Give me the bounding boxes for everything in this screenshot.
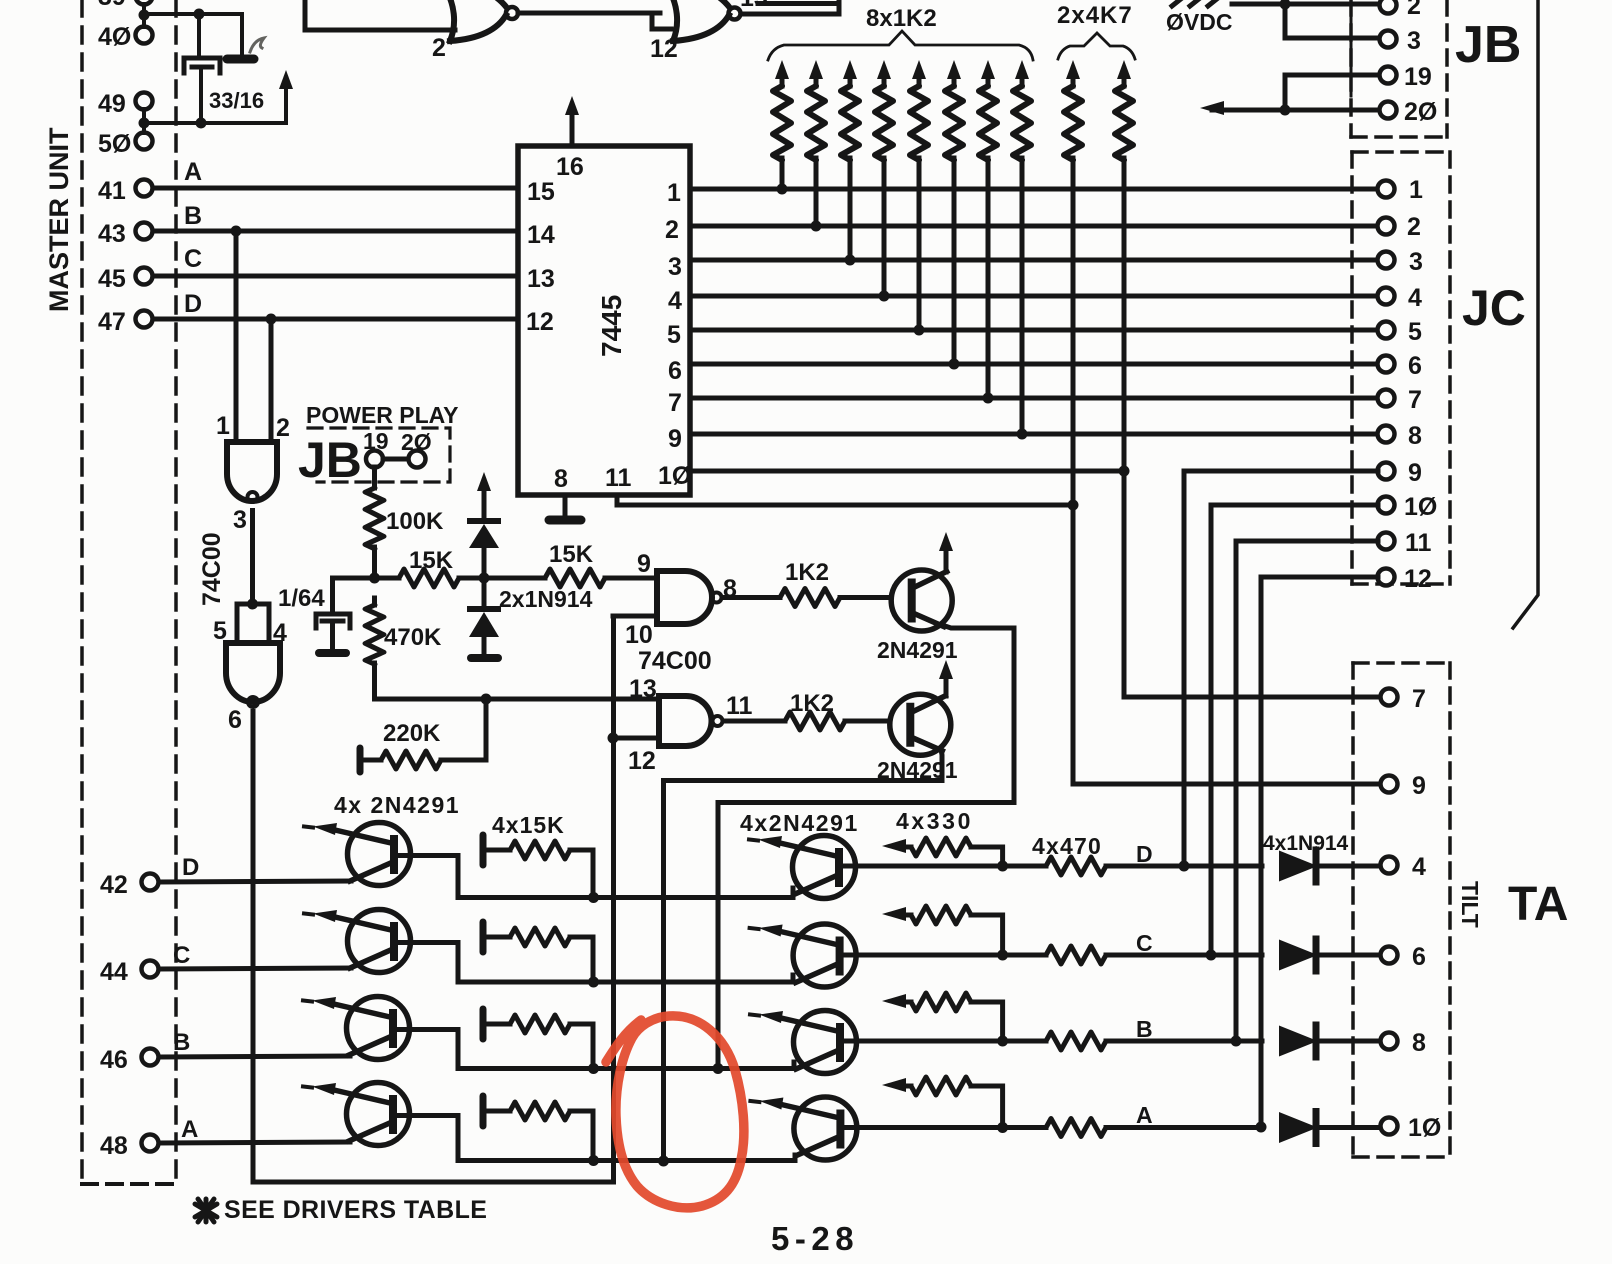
label 4x2N4291 right set — [740, 810, 859, 836]
pin JB2 — [1380, 0, 1421, 20]
resistor R2 1K2 — [807, 60, 825, 226]
wire pin12 from inverter line — [608, 733, 660, 744]
pin 41 — [98, 177, 153, 205]
pin 11 label — [605, 464, 632, 492]
wire JC12 to A row — [1256, 577, 1379, 1133]
svg-text:100K: 100K — [386, 508, 444, 535]
svg-text:4: 4 — [668, 287, 682, 315]
svg-text:2x1N914: 2x1N914 — [499, 586, 593, 612]
svg-text:2: 2 — [1407, 0, 1421, 20]
diode D5 1N914 row B — [1280, 1025, 1380, 1057]
wire JC10 to C row — [1206, 505, 1379, 961]
svg-text:9: 9 — [1408, 459, 1422, 487]
resistor R8 1K2 — [1013, 60, 1031, 434]
svg-text:19: 19 — [1404, 63, 1432, 91]
wire base 48 to Q6 — [159, 1142, 350, 1143]
svg-text:4x1N914: 4x1N914 — [1263, 832, 1349, 855]
svg-text:1: 1 — [216, 412, 230, 440]
pin 5 label — [667, 321, 681, 349]
svg-text:D: D — [184, 290, 202, 318]
svg-text:C: C — [1136, 930, 1153, 956]
svg-text:4x2N4291: 4x2N4291 — [740, 810, 859, 836]
wire row A to Q10 base — [594, 1155, 796, 1161]
resistor R9 4K7 — [1064, 60, 1082, 505]
pin 47 — [98, 308, 153, 336]
svg-text:C: C — [184, 245, 202, 273]
resistor 470 row D — [1046, 857, 1262, 875]
wire pin 1 to JC1 — [690, 184, 1378, 195]
label 2N4291 lower — [877, 757, 958, 783]
wire Q10 collector row A — [840, 1122, 1046, 1133]
pin JC7 — [1378, 386, 1422, 414]
svg-text:11: 11 — [1405, 529, 1432, 557]
svg-text:1: 1 — [667, 179, 681, 207]
wire Q3 collector to row D — [395, 856, 594, 898]
label 5-28 — [771, 1220, 859, 1257]
pin JC8 — [1378, 422, 1423, 450]
wire Q6 collector to row A — [394, 1116, 594, 1161]
svg-text:16: 16 — [556, 153, 584, 181]
label 0VDC — [1166, 9, 1232, 35]
pin JC5 — [1378, 318, 1423, 346]
svg-text:D: D — [1136, 841, 1153, 867]
svg-text:C: C — [173, 942, 190, 969]
supply arrow Q1 emitter — [939, 532, 953, 572]
svg-text:42: 42 — [100, 871, 128, 899]
wire G2 out up — [741, 0, 839, 14]
pin 43 — [98, 220, 153, 248]
svg-text:9: 9 — [668, 425, 682, 453]
svg-text:ØVDC: ØVDC — [1166, 9, 1232, 35]
svg-text:15: 15 — [527, 178, 555, 206]
wire pin 5 to JC5 — [690, 325, 1378, 336]
wire 220K up to node — [484, 699, 489, 760]
svg-text:11: 11 — [726, 692, 753, 720]
svg-text:POWER PLAY: POWER PLAY — [306, 402, 459, 428]
svg-text:19: 19 — [363, 428, 389, 454]
wire pin10 from inverter line — [613, 614, 657, 619]
wire 47 down to gate U1A input2 — [269, 319, 274, 442]
svg-text:7: 7 — [1412, 685, 1426, 713]
wire Q4 collector to row C — [395, 943, 594, 983]
transistor Q3 row D — [304, 823, 411, 886]
svg-text:B: B — [1136, 1016, 1153, 1042]
label SEE DRIVERS TABLE — [224, 1196, 487, 1224]
wire gate3 out to gate inputs 5,4 — [237, 511, 269, 644]
svg-text:A: A — [181, 1116, 198, 1143]
svg-text:3: 3 — [233, 506, 247, 534]
row letter D — [182, 854, 199, 881]
resistor 330 row A with arrow — [882, 1077, 1003, 1128]
svg-text:B: B — [173, 1029, 190, 1056]
svg-text:12: 12 — [1404, 565, 1432, 593]
label JB — [1455, 16, 1521, 74]
wire Q8 collector row C — [839, 950, 1046, 961]
svg-text:9: 9 — [1412, 772, 1426, 800]
svg-text:5: 5 — [667, 321, 681, 349]
resistor 470 row B — [1046, 1032, 1262, 1050]
pin JC12 — [1378, 565, 1432, 593]
wire Q5 collector to row B — [394, 1030, 594, 1069]
wire input box to nor gate G1 — [305, 0, 455, 30]
cable bundle line — [1513, 0, 1538, 628]
svg-text:5Ø: 5Ø — [98, 130, 131, 158]
nand gate U1A 74C00 pins 1,2 out 3 — [216, 412, 290, 534]
wire node to 1/64 branch — [333, 578, 375, 614]
wire pins 39-40 tie — [139, 4, 150, 27]
resistor 330 row C with arrow — [882, 906, 1003, 955]
resistor R5 1K2 — [910, 60, 928, 330]
diode D3 1N914 row D — [1280, 850, 1380, 882]
svg-text:14: 14 — [527, 221, 555, 249]
svg-text:33/16: 33/16 — [209, 88, 264, 113]
nor gate G1 (top, partial) — [432, 0, 518, 62]
ground pin 8 — [549, 495, 581, 520]
junction row B — [588, 1063, 599, 1074]
capacitor 33/16 — [184, 14, 264, 124]
svg-text:1K2: 1K2 — [790, 690, 834, 717]
diode D6 1N914 row A — [1280, 1112, 1380, 1144]
wire 4K7 left down to TA9 — [1073, 505, 1380, 784]
svg-text:A: A — [1136, 1102, 1153, 1128]
resistor R4 1K2 — [875, 60, 893, 296]
resistor 1K2 lower — [723, 690, 890, 730]
master unit dashed border bottom — [82, 1182, 176, 1186]
svg-text:47: 47 — [98, 308, 126, 336]
svg-text:4x 2N4291: 4x 2N4291 — [334, 792, 460, 818]
svg-text:4: 4 — [1408, 284, 1422, 312]
svg-text:45: 45 — [98, 265, 126, 293]
transistor Q2 2N4291 — [890, 694, 951, 755]
capacitor 1/64 — [278, 585, 350, 650]
pin JB20 — [1380, 98, 1438, 126]
terminator diode bottom — [471, 654, 498, 662]
connector JC dashed box — [1352, 152, 1450, 584]
row D letter — [1136, 841, 1153, 867]
label POWER PLAY — [306, 402, 459, 428]
label JC — [1462, 280, 1526, 336]
op IC U2 7445 body — [518, 146, 690, 495]
label MASTER UNIT — [44, 127, 74, 312]
row A letter — [1136, 1102, 1153, 1128]
nor gate G2 (top, partial) with bubble — [650, 0, 768, 63]
wire 470K to gate pin13 — [375, 694, 660, 705]
wire pin 9 to JC8 — [690, 429, 1378, 440]
label 2x4K7 — [1057, 2, 1133, 29]
master unit dashed border left — [80, 0, 84, 1184]
pin JB3 — [1380, 27, 1421, 55]
pin 39 — [98, 0, 153, 11]
nand gate U1D pins 13,12 out 11 — [628, 675, 753, 775]
pin 45 — [98, 265, 153, 293]
nand gate U1B 74C00 pins 5,4 out 6 — [213, 617, 287, 734]
svg-text:1/64: 1/64 — [278, 585, 325, 612]
wire pins 49-50 tie — [139, 109, 150, 133]
svg-text:43: 43 — [98, 220, 126, 248]
wire Q7 collector row D — [839, 861, 1046, 872]
pin TA4 — [1381, 853, 1427, 881]
transistor Q5 row B — [303, 997, 410, 1060]
pin 49 — [98, 90, 153, 118]
wire Q9 collector row B — [840, 1036, 1046, 1047]
pin 7 label — [668, 389, 682, 417]
pin TA7 — [1381, 685, 1426, 713]
svg-text:2Ø: 2Ø — [1404, 98, 1437, 126]
hatch marks above 0VDC — [1172, 0, 1218, 6]
wire Q1 collector to B row — [713, 625, 1015, 1074]
pin 2 label — [665, 216, 679, 244]
svg-text:12: 12 — [526, 308, 554, 336]
ground 1/64 — [319, 649, 346, 657]
svg-text:15K: 15K — [409, 547, 454, 574]
transistor Q9 row B — [750, 1011, 857, 1074]
wire 41 to 7445 pin15 — [153, 186, 518, 191]
svg-text:2: 2 — [432, 34, 446, 62]
label 4x330 — [896, 808, 973, 834]
svg-text:1Ø: 1Ø — [1408, 1114, 1441, 1142]
resistor 15K second — [484, 541, 657, 587]
connector TA dashed box — [1353, 663, 1450, 1157]
transistor Q8 row C — [750, 924, 857, 987]
ground pad top — [227, 55, 254, 64]
label 4x470 — [1032, 833, 1102, 859]
resistor 15K first — [375, 547, 485, 587]
label JB small — [298, 432, 362, 488]
svg-text:5: 5 — [1408, 318, 1422, 346]
svg-text:2: 2 — [276, 414, 290, 442]
label 2N4291 upper — [877, 637, 958, 663]
wire inverter output to pins 10,12 — [253, 616, 614, 1182]
pin 4 label — [668, 287, 682, 315]
wire G1 out to G2 — [518, 13, 671, 29]
svg-text:15K: 15K — [549, 541, 594, 568]
crease line JB — [1350, 0, 1353, 96]
svg-text:4x15K: 4x15K — [492, 812, 565, 838]
svg-text:2N4291: 2N4291 — [877, 637, 958, 663]
svg-text:6: 6 — [228, 706, 242, 734]
wire Q2 collector to A row — [658, 749, 942, 1167]
red annotation circle — [606, 1016, 744, 1208]
node dot 100K bottom — [369, 573, 380, 584]
label TA — [1508, 878, 1568, 931]
label 2x1N914 — [499, 586, 593, 612]
svg-text:6: 6 — [668, 357, 682, 385]
pin JC2 — [1378, 213, 1421, 241]
pin 46 — [100, 1046, 159, 1074]
svg-text:JC: JC — [1462, 280, 1526, 336]
pin 16 supply arrow — [556, 96, 584, 181]
brace 8x1K2 — [768, 31, 1033, 60]
pencil curl mark — [250, 38, 264, 52]
wire row C to Q8 base — [594, 975, 794, 982]
resistor R7 1K2 — [979, 60, 997, 398]
resistor 15K row C — [483, 922, 593, 982]
svg-text:D: D — [182, 854, 199, 881]
svg-text:7: 7 — [1408, 386, 1422, 414]
svg-text:1K2: 1K2 — [785, 559, 829, 586]
svg-text:6: 6 — [1412, 943, 1426, 971]
label 74C00 vertical — [198, 532, 226, 606]
resistor 470 row A — [1046, 1119, 1262, 1137]
svg-text:48: 48 — [100, 1132, 128, 1160]
svg-text:B: B — [184, 202, 202, 230]
svg-text:8x1K2: 8x1K2 — [866, 5, 937, 32]
resistor 15K row D — [483, 835, 593, 898]
diode D2 1N914 — [469, 578, 499, 653]
wire row B to Q9 base — [594, 1062, 795, 1069]
svg-text:2x4K7: 2x4K7 — [1057, 2, 1133, 29]
wire JB19-JB20 tie with arrow — [1200, 75, 1379, 116]
wire JC11 to B row — [1231, 541, 1379, 1047]
connector JB dashed box — [1351, 0, 1447, 137]
svg-text:A: A — [184, 158, 202, 186]
wire JC9 to D row — [1179, 471, 1379, 872]
wire pin 10 to 4K7 right — [690, 466, 1130, 477]
resistor 100K — [366, 467, 445, 578]
label 74C00 center — [638, 647, 712, 675]
svg-text:7: 7 — [668, 389, 682, 417]
wire pin 4 to JC4 — [690, 291, 1378, 302]
supply arrow 33/16 — [279, 70, 293, 90]
wire JB19-JB20 — [383, 457, 408, 462]
resistor 470 row C — [1046, 946, 1262, 964]
pin 50 — [98, 130, 153, 158]
pin JB20 powerplay — [401, 429, 432, 468]
pin 3 label — [668, 253, 682, 281]
resistor 1K2 upper — [722, 559, 891, 607]
row B letter — [1136, 1016, 1153, 1042]
pin TA6 — [1381, 943, 1426, 971]
svg-text:10: 10 — [625, 621, 653, 649]
svg-text:4Ø: 4Ø — [98, 23, 131, 51]
transistor Q6 row A — [303, 1083, 410, 1146]
svg-text:TA: TA — [1508, 878, 1568, 931]
wire 43 to 7445 pin14 — [153, 226, 518, 237]
svg-text:2Ø: 2Ø — [401, 429, 432, 455]
resistor 220K — [360, 720, 486, 772]
svg-text:5-28: 5-28 — [771, 1220, 859, 1257]
svg-text:74C00: 74C00 — [638, 647, 712, 675]
wire node 49 to supply arrow — [144, 88, 286, 129]
svg-text:470K: 470K — [384, 624, 442, 651]
pin 8 label — [554, 465, 568, 493]
svg-text:1: 1 — [1409, 176, 1423, 204]
label 4x1N914 — [1263, 832, 1349, 855]
svg-text:12: 12 — [628, 747, 656, 775]
diode D4 1N914 row C — [1280, 939, 1380, 971]
svg-text:3: 3 — [1409, 248, 1423, 276]
resistor 330 row D with arrow — [882, 838, 1003, 866]
node D label — [184, 290, 202, 318]
svg-text:6: 6 — [1408, 352, 1422, 380]
resistor R6 1K2 — [945, 60, 963, 364]
pin 14 label — [527, 221, 555, 249]
resistor R3 1K2 — [841, 60, 859, 260]
pin 13 label — [527, 265, 555, 293]
wire pin 7 to JC7 — [690, 393, 1378, 404]
wire pin 11 to 4K7 left — [617, 495, 1079, 511]
pin 15 label — [527, 178, 555, 206]
wire 47 to 7445 pin12 — [153, 314, 518, 325]
node C label — [184, 245, 202, 273]
wire base 44 to Q4 — [159, 968, 351, 969]
wire node 40 to cap top — [144, 9, 242, 54]
pin 9 label — [668, 425, 682, 453]
supply arrow Q2 emitter — [939, 660, 953, 696]
pin 6 label — [668, 357, 682, 385]
svg-text:39: 39 — [98, 0, 126, 11]
junction row C — [588, 977, 599, 988]
pin JB19 powerplay — [363, 428, 389, 468]
resistor 15K row B — [483, 1009, 593, 1069]
power play JB dashed box — [308, 428, 450, 482]
pin 10 label — [658, 462, 691, 490]
resistor 470K — [366, 598, 443, 699]
wire 4K7 right down to TA7 — [1124, 471, 1380, 697]
row letter A — [181, 1116, 198, 1143]
svg-text:4x330: 4x330 — [896, 808, 973, 834]
svg-text:220K: 220K — [383, 720, 441, 747]
svg-text:4: 4 — [1412, 853, 1426, 881]
nand gate U1C pins 9,10 out 8 — [625, 550, 737, 649]
pin TA9 — [1381, 772, 1426, 800]
svg-text:8: 8 — [1412, 1029, 1426, 1057]
svg-text:JB: JB — [1455, 16, 1521, 74]
junction row A — [588, 1155, 599, 1166]
svg-text:12: 12 — [650, 35, 678, 63]
transistor Q4 row C — [304, 910, 411, 973]
row letter C — [173, 942, 190, 969]
pin TA8 — [1381, 1029, 1427, 1057]
resistor R1 1K2 — [773, 60, 791, 189]
svg-text:7445: 7445 — [596, 295, 627, 357]
resistor R10 4K7 — [1115, 60, 1133, 471]
wire pin 3 to JC3 — [690, 255, 1378, 266]
svg-text:13: 13 — [527, 265, 555, 293]
pin 48 — [100, 1132, 159, 1160]
svg-text:8: 8 — [1408, 422, 1422, 450]
svg-text:2: 2 — [665, 216, 679, 244]
pin JC4 — [1378, 284, 1423, 312]
transistor Q7 row D — [749, 836, 856, 899]
svg-text:74C00: 74C00 — [198, 532, 226, 606]
node B label — [184, 202, 202, 230]
wire pin 6 to JC6 — [690, 359, 1378, 370]
svg-text:41: 41 — [98, 177, 126, 205]
pin JC6 — [1378, 352, 1422, 380]
supply arrow diode column — [477, 472, 491, 521]
resistor 330 row B with arrow — [882, 993, 1003, 1041]
pin JC9 — [1378, 459, 1422, 487]
pin 1 label — [667, 179, 681, 207]
svg-text:11: 11 — [605, 464, 632, 492]
pin TA10 — [1381, 1114, 1442, 1142]
svg-text:13: 13 — [629, 675, 657, 703]
pin JC10 — [1378, 493, 1438, 521]
wire base 46 to Q5 — [159, 1056, 350, 1057]
svg-text:SEE DRIVERS TABLE: SEE DRIVERS TABLE — [224, 1196, 487, 1224]
node dot diodes — [479, 573, 490, 584]
label 4x2N4291 left set — [334, 792, 460, 818]
wire 43 down to gate U1A input1 — [234, 231, 239, 442]
svg-text:1Ø: 1Ø — [1404, 493, 1437, 521]
diode D1 1N914 — [469, 521, 499, 578]
junction row D — [588, 892, 599, 903]
resistor 15K row A — [483, 1096, 593, 1161]
node A label — [184, 158, 202, 186]
svg-text:3: 3 — [668, 253, 682, 281]
pin 40 — [98, 23, 153, 51]
